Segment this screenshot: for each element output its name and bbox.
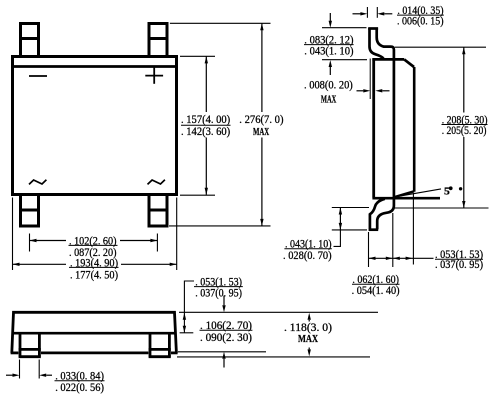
dimension .014/.006 ticks: [367, 7, 377, 18]
left lead tab: [19, 333, 41, 356]
dimension .208/.205 line and arrows: [463, 47, 465, 112]
svg-text:. 090(2. 30): . 090(2. 30): [200, 331, 252, 344]
top lead left contour: [370, 28, 384, 59]
5 degree draft leader: [396, 189, 442, 197]
minus polarity mark: [29, 75, 47, 77]
lead bottom extension left: [332, 229, 367, 231]
body outline: [12, 312, 177, 353]
body top chamfer: [404, 59, 414, 67]
body right face: [413, 67, 416, 192]
dimension .062 and .053 line: [369, 257, 434, 259]
svg-text:MAX: MAX: [298, 333, 318, 345]
dimension .276 extension lines: [169, 23, 271, 226]
top lead cap: [368, 27, 378, 30]
lead frame seam line: [12, 332, 176, 335]
top-right lead: [148, 24, 169, 57]
bottom-right lead: [148, 195, 169, 226]
svg-text:. 142(3. 60): . 142(3. 60): [181, 125, 230, 138]
svg-text:. 037(0. 95): . 037(0. 95): [195, 286, 242, 299]
dimension .208/.205 extension lines: [394, 47, 489, 208]
dimension .033/.022 extension lines: [20, 360, 40, 379]
svg-text:. 022(0. 56): . 022(0. 56): [55, 381, 104, 394]
dimension .193/.177 line and arrows: [13, 263, 67, 265]
svg-text:. 054(1. 40): . 054(1. 40): [352, 284, 400, 297]
dimension .043/.028 line and arrows: [339, 208, 341, 230]
leader hook for .053 label: [184, 281, 194, 333]
package body outline: [13, 57, 177, 195]
svg-text:. 037(0. 95): . 037(0. 95): [435, 258, 483, 271]
svg-text:. 006(0. 15): . 006(0. 15): [397, 15, 444, 28]
body bottom edge: [372, 197, 440, 200]
leader hook to .043 label: [334, 230, 341, 247]
bottom lead right contour: [377, 206, 394, 230]
top lead right contour with ledge into front face: [377, 28, 394, 206]
thin lead edge extension for .008: [369, 59, 371, 100]
body top edge: [372, 58, 404, 61]
svg-text:. 008(0. 20): . 008(0. 20): [304, 78, 353, 91]
svg-text:MAX: MAX: [321, 93, 336, 105]
dimension .193/.177 extension lines: [13, 198, 177, 271]
bottom-left lead: [19, 195, 40, 226]
dimension .014/.006 arrows: [353, 13, 361, 15]
dimension .008 MAX arrows: [357, 90, 364, 92]
bottom lead cap: [369, 228, 379, 231]
svg-text:MAX: MAX: [253, 126, 269, 138]
extension lines below side view: [369, 193, 414, 267]
right lead tab: [149, 333, 171, 356]
dimension .083/.043 arrows: [329, 13, 331, 21]
svg-text:. 205(5. 20): . 205(5. 20): [442, 124, 487, 137]
body bottom edge segments: [11, 351, 19, 354]
svg-text:. 043(1. 10): . 043(1. 10): [304, 44, 353, 57]
seam extension line right: [180, 332, 194, 334]
plus polarity mark: [145, 67, 163, 84]
dimension .157/.142 line and arrows: [205, 56, 207, 112]
svg-text:. 276(7. 0): . 276(7. 0): [239, 113, 283, 126]
body top band line: [11, 65, 178, 68]
AC tilde mark left: [29, 180, 46, 185]
top-left lead: [19, 24, 40, 57]
dimension .102/.087 extension lines: [30, 234, 158, 252]
dimension .083/.043 extension lines: [322, 28, 367, 60]
bottom lead left contour: [370, 199, 385, 230]
dimension .276 line and arrows: [261, 23, 263, 112]
body left face: [372, 58, 375, 197]
svg-text:. 028(0. 70): . 028(0. 70): [283, 249, 332, 262]
dimension .118 MAX arrows: [308, 313, 311, 320]
body bottom slant (5 deg): [395, 191, 414, 197]
svg-text:. 177(4. 50): . 177(4. 50): [70, 268, 118, 281]
dimension .106/.090 arrows: [223, 296, 225, 306]
dimension .102/.087 line and arrows: [30, 240, 67, 242]
dimension .157/.142 extension lines: [180, 56, 215, 195]
extension lines right of front view: [177, 312, 378, 357]
.053 front view arrows: [183, 313, 186, 320]
seating plane extension left: [332, 207, 369, 209]
dimension .033/.022 arrows: [6, 374, 13, 376]
AC tilde mark right: [148, 180, 165, 185]
